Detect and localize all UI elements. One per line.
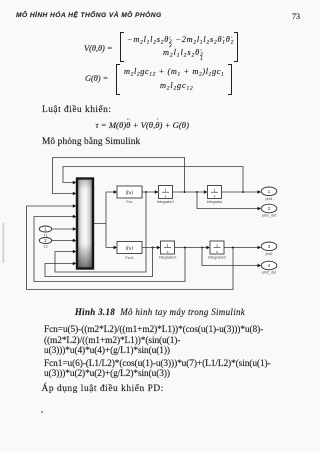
svg-text:f(u): f(u) bbox=[126, 191, 134, 196]
svg-text:Integrator2: Integrator2 bbox=[159, 256, 177, 260]
svg-text:phi1_dot: phi1_dot bbox=[262, 214, 276, 218]
svg-text:Integrator3: Integrator3 bbox=[208, 256, 226, 260]
svg-text:phi1: phi1 bbox=[266, 197, 273, 201]
svg-text:s: s bbox=[167, 249, 169, 254]
svg-text:Fcn: Fcn bbox=[126, 200, 132, 204]
svg-text:f(u): f(u) bbox=[126, 247, 134, 252]
svg-text:s: s bbox=[165, 193, 167, 198]
svg-text:T2: T2 bbox=[43, 245, 47, 249]
svg-text:phi2: phi2 bbox=[266, 252, 273, 256]
svg-text:Integrator: Integrator bbox=[207, 200, 224, 204]
svg-text:s: s bbox=[214, 193, 216, 198]
svg-text:phi2_dot: phi2_dot bbox=[262, 271, 276, 275]
svg-text:T1: T1 bbox=[43, 234, 47, 238]
svg-text:s: s bbox=[216, 249, 218, 254]
svg-text:Integrator1: Integrator1 bbox=[157, 200, 175, 204]
svg-text:Fcn1: Fcn1 bbox=[125, 256, 133, 260]
